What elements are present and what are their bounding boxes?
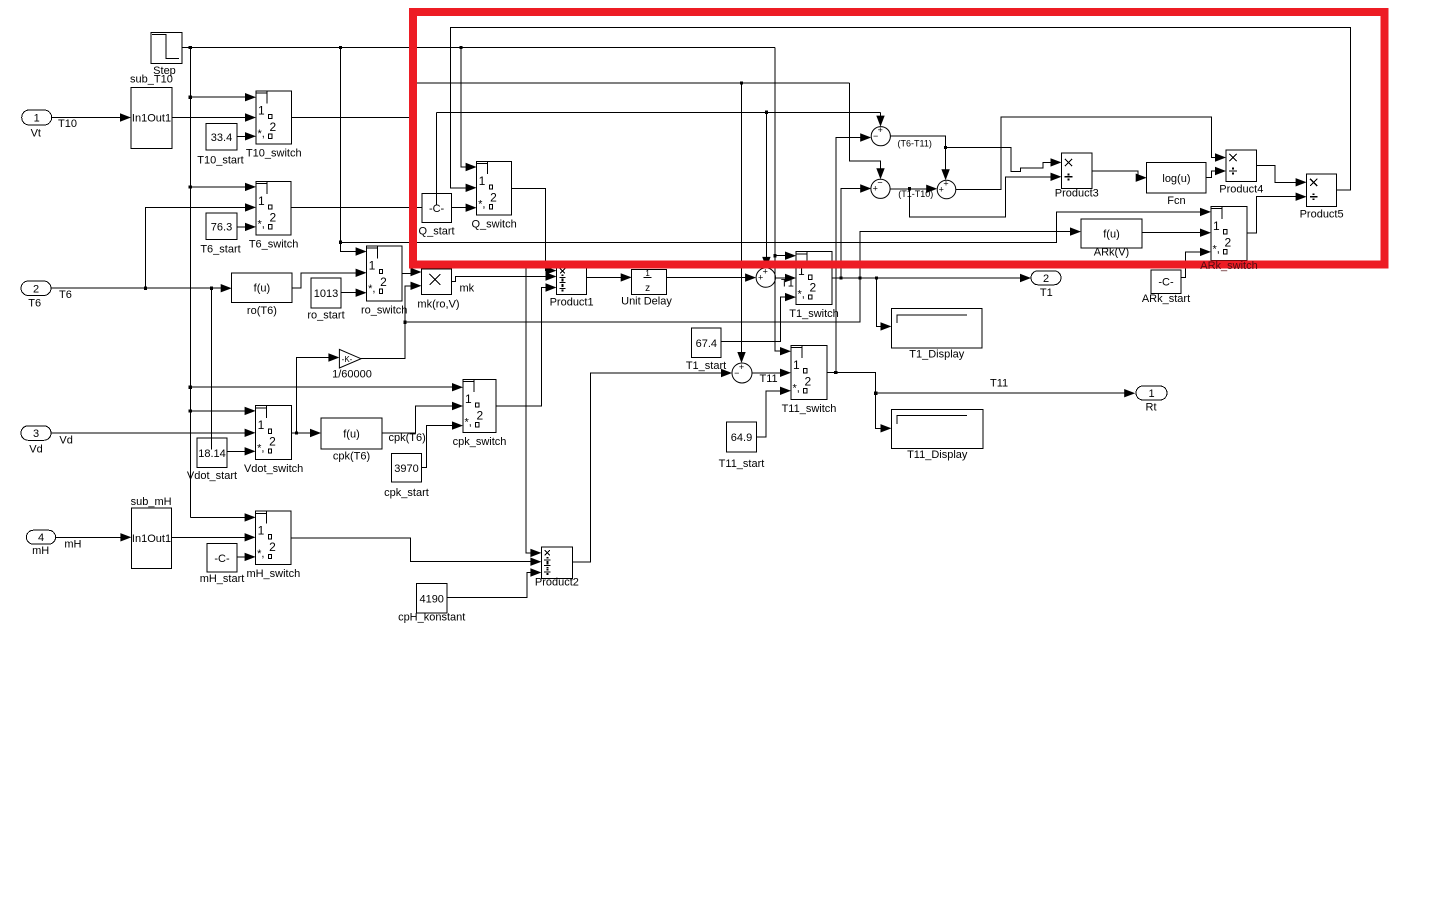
svg-text:1: 1 [34,113,40,125]
constant ro_start [307,278,344,322]
wire sum T11 output to T11_switch pin data [752,369,791,377]
display T11_Display [892,409,984,461]
wire Product2 output to sum T11 [572,369,732,562]
wire control to ARk_switch pin1 [340,208,1211,243]
svg-text:Vdot_start: Vdot_start [187,470,237,482]
svg-text:1: 1 [479,174,486,188]
svg-text:2: 2 [490,191,497,205]
sum (T6-T11) [871,125,890,146]
svg-text:mH_switch: mH_switch [246,568,300,580]
svg-text:mH: mH [64,539,81,551]
svg-text:2: 2 [269,540,276,554]
svg-text:*,: *, [465,417,472,429]
svg-text:*,: *, [1213,243,1220,255]
svg-text:−: − [877,178,882,188]
label mH signal [64,539,81,551]
wire ro(T6) output to ro_switch pin data [292,269,367,288]
inport 4 mH [26,530,55,557]
wire mH_start to mH_switch pin2 [237,553,256,561]
svg-text:ro(T6): ro(T6) [247,305,277,317]
label ARk_switch (under red box) [1200,260,1257,272]
wire T10_start to T10_switch pin2 [237,132,256,140]
svg-text:T1: T1 [781,277,794,289]
wire cpk_switch output to Product1 pin3 [496,283,557,406]
annotation red highlight box [413,12,1384,264]
constant T6_start [200,213,240,256]
switch cpk_switch [453,380,507,449]
block Product3 [1055,153,1099,200]
wire Q_switch output to Product1 pin1 [512,188,557,274]
label sub_T10 subsystem name [130,74,173,86]
wire T1 to display [877,278,892,331]
label T6 signal [59,289,72,301]
svg-text:4: 4 [38,532,44,544]
svg-text:T6_switch: T6_switch [249,238,299,250]
svg-text:−: − [734,368,739,378]
svg-text:T1_switch: T1_switch [789,308,839,320]
svg-text:sub_T10: sub_T10 [130,74,173,86]
block mk(ro,V) product [417,269,459,311]
wire T6_start to T6_switch pin2 [237,223,256,231]
block Step source [151,33,182,78]
svg-text:-C-: -C- [1158,277,1174,289]
svg-text:cpk_switch: cpk_switch [453,436,507,448]
wire control to cpk_switch pin1 [190,383,463,391]
svg-text:1: 1 [258,194,265,208]
wire sum T11 feed from control [737,83,745,363]
svg-text:+: + [939,184,944,194]
svg-text:ARk(V): ARk(V) [1094,247,1129,259]
svg-text:ARk_start: ARk_start [1142,293,1190,305]
wire control x775 to T11_switch pin1 [773,47,791,355]
svg-text:cpk(T6): cpk(T6) [389,432,426,444]
svg-text:1: 1 [258,104,265,118]
svg-text:*,: *, [793,382,800,394]
svg-text:T11: T11 [990,378,1008,390]
svg-text:In1Out1: In1Out1 [132,533,171,545]
outport 2 T1 [1031,271,1061,299]
svg-text:T6: T6 [28,298,41,310]
fcn ARk(V) [1081,219,1142,259]
svg-text:Unit Delay: Unit Delay [621,296,672,308]
wire control to T10_switch pin1 [190,93,256,101]
svg-text:T11_switch: T11_switch [782,403,837,415]
wire T1 feed to ARk fcn [860,227,1081,278]
svg-text:log(u): log(u) [1162,173,1190,185]
wire branch up to gain 1/60000 [296,353,339,433]
inport 3 Vd [21,426,51,456]
svg-text:*,: *, [798,289,805,301]
svg-text:sub_mH: sub_mH [131,496,172,508]
label T11 signal [760,373,778,385]
wire Product3 output to log Fcn [1092,171,1147,182]
wire cpk fcn output to cpk_switch pin data [382,402,463,433]
label mk signal [460,283,475,295]
outport 1 Rt [1136,386,1167,413]
svg-text:mH_start: mH_start [200,573,245,585]
svg-text:67.4: 67.4 [696,338,717,350]
svg-text:-K-: -K- [342,355,353,364]
wire control to T6_switch pin1 [190,183,256,191]
svg-text:76.3: 76.3 [211,221,232,233]
wire Vdot_start to Vdot_switch pin2 [227,447,256,455]
switch mH_switch [246,511,300,580]
svg-text:Rt: Rt [1146,401,1157,413]
svg-text:T1: T1 [1040,287,1053,299]
label T11 signal long run [990,378,1008,390]
svg-text:2: 2 [1043,273,1049,285]
sum T1 (plus plus) [756,266,775,287]
wire (T1-T10) to Product3 pin2 [909,173,1061,217]
svg-text:Q_switch: Q_switch [471,219,516,231]
switch ARk_switch [1211,206,1247,260]
wire control to Vdot_switch pin1 [190,407,255,415]
wire T1 output run to outport [832,274,1031,282]
svg-text:ro_start: ro_start [307,310,344,322]
svg-text:64.9: 64.9 [731,432,752,444]
svg-text:2: 2 [33,283,39,295]
svg-text:*,: *, [258,219,265,231]
wire sum T1 output to T1_switch pin data [776,274,797,282]
wire T10_switch output to sum (T1-T10) [292,81,885,179]
inport 2 T6 [21,281,51,310]
svg-text:+: + [758,272,763,282]
svg-text:Product2: Product2 [535,577,579,589]
svg-text:T11: T11 [760,373,778,385]
svg-text:Vt: Vt [31,128,41,140]
switch ro_switch [361,246,407,316]
sum T11 (plus minus) [732,362,752,383]
wire T11 output run [827,371,1135,398]
display T1_Display [892,309,983,361]
wire Vt to In1Out1 [52,113,131,121]
wire T1_start to T1_switch pin2 [721,293,796,342]
switch Q_switch [471,162,516,231]
block Unit Delay [621,269,672,308]
switch T11_switch [782,345,837,415]
svg-text:Product4: Product4 [1219,184,1263,196]
switch T1_switch [789,252,839,320]
switch Vdot_switch [244,406,303,476]
wire mH_switch output to Product2 pin2 [291,538,541,566]
wire T6 branch down to Vdot_start [211,288,213,449]
wire mk output to Product1 pin2 [452,272,557,281]
wire sum (T1-T10) output [890,185,937,193]
svg-text:Q_start: Q_start [419,226,455,238]
constant T1_start [686,328,726,372]
wire sum combine output to Product4 pin1 [956,117,1226,190]
svg-text:1: 1 [465,392,472,406]
wire hidden feed to Product2 pin1 [526,264,542,557]
switch T10_switch [246,91,302,160]
svg-text:*,: *, [478,199,485,211]
wire cpk_start to cpk_switch pin2 [422,421,464,467]
wire (T6-T11) to Product3 pin1 [946,148,1062,172]
svg-text:Vd: Vd [29,444,42,456]
svg-text:3: 3 [33,428,39,440]
wire T6 input run [51,284,232,292]
wire In1Out1 to mH_switch pin data [172,533,256,541]
wire ARk fcn output to ARk_switch pin data [1142,229,1211,237]
wire T6 branch to T6_switch pin data [146,203,256,288]
label (T6-T11) [898,138,932,148]
constant Vdot_start [187,438,237,482]
wire Step output bus [182,46,775,49]
inport 1 Vt [22,110,52,140]
svg-text:33.4: 33.4 [211,132,232,144]
wire control x340 to ro_switch pin1 [339,47,367,255]
wire gain branch to node T1 (long) [405,278,860,322]
svg-text:1: 1 [1213,219,1220,233]
svg-text:+: + [873,184,878,194]
block Product2 [535,547,579,589]
switch T6_switch [249,182,299,251]
svg-text:−: − [873,131,878,141]
svg-text:+: + [739,362,744,372]
svg-text:Vdot_switch: Vdot_switch [244,463,303,475]
block In1Out1 subsystem sub_mH [131,508,171,569]
constant cpH_konstant [398,584,465,624]
svg-text:1: 1 [793,358,800,372]
svg-text:-C-: -C- [214,553,230,565]
sum (T1-T10) [871,178,890,199]
wire Unit Delay output to sum T1 [667,273,756,281]
svg-text:2: 2 [810,281,817,295]
label T1 signal [781,277,794,289]
wire T6_switch output to Q area [291,204,477,212]
svg-text:mk: mk [460,283,475,295]
fcn cpk(T6) [321,418,382,463]
svg-text:3970: 3970 [394,463,418,475]
wire ro_start to ro_switch pin2 [341,289,367,297]
wire T11 feedback to sum (T6-T11) [836,133,871,372]
svg-text:T11_Display: T11_Display [907,449,968,461]
svg-text:Product1: Product1 [550,297,594,309]
svg-text:*,: *, [257,548,264,560]
svg-text:T1_start: T1_start [686,360,726,372]
wire Vd to Vdot_switch pin data [51,429,256,437]
svg-text:mH: mH [32,545,49,557]
wire control branch to T1_switch pin1 [775,252,796,260]
svg-text:1/60000: 1/60000 [332,369,372,381]
svg-text:Vd: Vd [59,435,72,447]
svg-text:(T6-T11): (T6-T11) [898,138,932,148]
constant T10_start [197,124,243,167]
constant cpk_start [384,454,429,500]
wire control trunk x190 down to mH_switch [189,47,256,521]
svg-text:*,: *, [258,128,265,140]
constant T11_start [719,422,765,470]
wire In1Out1 to T10_switch pin data [172,113,256,121]
block Product4 [1219,150,1263,196]
svg-text:2: 2 [805,374,812,388]
wire Fcn output to Product4 pin2 [1206,167,1226,178]
wire ARk_switch output to Product5 pin2 [1247,193,1307,233]
constant ARk_start [1142,270,1190,305]
block In1Out1 subsystem sub_T10 [131,88,172,149]
svg-text:ro_switch: ro_switch [361,304,407,316]
svg-text:1013: 1013 [314,288,338,300]
svg-text:Product3: Product3 [1055,188,1099,200]
svg-text:2: 2 [270,211,277,225]
svg-text:mk(ro,V): mk(ro,V) [417,299,459,311]
fcn log(u) [1147,163,1207,208]
wire branch down to sum T1 pin top [762,112,770,268]
svg-text:T11_start: T11_start [719,458,765,470]
wire Product4 output to Product5 pin1 [1257,166,1307,187]
sum combine [937,178,956,199]
svg-text:cpH_konstant: cpH_konstant [398,612,465,624]
wire control x461 to Q_switch pin1 [461,47,477,171]
svg-text:T6: T6 [59,289,72,301]
svg-text:z: z [645,283,650,294]
wire Product5 output feedback loop [451,28,1351,193]
svg-text:1: 1 [369,259,376,273]
svg-text:1: 1 [645,269,650,278]
svg-text:18.14: 18.14 [198,448,226,460]
svg-text:ARk_switch: ARk_switch [1200,260,1257,272]
svg-text:T10_start: T10_start [197,155,243,167]
wire T11 to display [876,393,892,432]
svg-text:1: 1 [258,418,265,432]
label T10 signal [58,118,77,130]
wire T1 feedback to sum (T1-T10) [841,184,871,278]
constant mH_start [200,544,245,585]
wire ARk_start to ARk_switch pin2 [1181,248,1211,278]
svg-text:1: 1 [258,524,265,538]
svg-text:T10_switch: T10_switch [246,148,302,160]
wire mH to In1Out1 [56,533,132,541]
wire T6 feed to sum (T6-T11) [436,111,884,127]
block Product5 [1300,174,1344,221]
svg-text:cpk_start: cpk_start [384,487,429,499]
wire node above Q_start / T6 riser [435,112,437,205]
svg-text:Fcn: Fcn [1167,195,1185,207]
svg-text:Product5: Product5 [1300,209,1344,221]
svg-text:2: 2 [270,120,277,134]
wire Product1 output to Unit Delay [587,273,632,281]
wire Vdot_switch output to cpk fcn [292,429,321,437]
svg-text:T1_Display: T1_Display [909,349,965,361]
svg-text:2: 2 [380,275,387,289]
wire ro_switch output to mk product [402,268,422,276]
svg-text:1: 1 [1148,388,1154,400]
constant Q_start [419,194,455,238]
svg-text:f(u): f(u) [343,429,360,441]
wire cpH_konstant to Product2 pin3 [447,568,541,597]
label (T1-T10) [898,189,933,199]
wire sum (T6-T11) output [890,136,949,180]
svg-text:2: 2 [269,435,276,449]
svg-text:+: + [943,178,948,188]
svg-text:*,: *, [257,443,264,455]
svg-text:f(u): f(u) [254,283,271,295]
svg-text:T6_start: T6_start [200,244,240,256]
label cpk(T6) signal [389,432,426,444]
wire T11_start to T11_switch pin2 [757,387,792,437]
svg-text:2: 2 [477,409,484,423]
block Product1 [550,268,594,309]
svg-text:4190: 4190 [419,593,443,605]
block gain 1/60000 [332,349,372,380]
svg-text:In1Out1: In1Out1 [132,113,171,125]
svg-text:2: 2 [1225,235,1232,249]
svg-text:T10: T10 [58,118,77,130]
svg-text:f(u): f(u) [1103,229,1120,241]
svg-text:+: + [878,125,883,135]
label sub_mH subsystem name [131,496,172,508]
svg-text:cpk(T6): cpk(T6) [333,451,370,463]
fcn ro(T6) [232,273,292,317]
wire gain output to mk product pin2 [361,282,422,359]
svg-text:*,: *, [368,283,375,295]
label Vd signal [59,435,72,447]
